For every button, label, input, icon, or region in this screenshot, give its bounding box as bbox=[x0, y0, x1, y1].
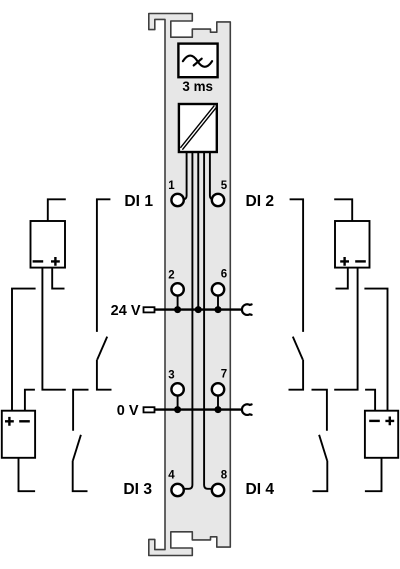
switch S3 lower lead bbox=[289, 360, 304, 390]
filter cross tick bbox=[194, 59, 202, 66]
svg-text:8: 8 bbox=[221, 470, 228, 482]
B4 minus mark bbox=[369, 420, 380, 422]
galvanic isolation box U2 bbox=[179, 104, 217, 152]
switch S2 blade bbox=[73, 435, 81, 461]
B2 minus mark bbox=[19, 420, 30, 422]
switch S4 lower lead bbox=[313, 461, 328, 492]
power supply B3 (right upper) bbox=[335, 221, 370, 268]
svg-text:DI 4: DI 4 bbox=[246, 481, 275, 498]
svg-text:6: 6 bbox=[221, 268, 227, 280]
24V bus socket hook bbox=[242, 304, 252, 315]
isolation diagonal line a bbox=[180, 105, 214, 147]
junction dot bus 24V / terminal 6 bbox=[215, 306, 222, 313]
terminal 3 bbox=[171, 383, 183, 395]
svg-text:DI 3: DI 3 bbox=[123, 481, 152, 498]
terminal 6 bbox=[212, 283, 224, 295]
svg-text:24 V: 24 V bbox=[111, 303, 141, 319]
switch S2 upper lead bbox=[73, 390, 88, 431]
wire to terminal 1 bbox=[182, 149, 187, 199]
0V connector square bbox=[144, 407, 155, 412]
junction dot bus 0V / terminal 3 bbox=[174, 406, 181, 413]
junction dot bus 24V / internal wire bbox=[195, 306, 202, 313]
B1 plus mark bbox=[51, 257, 60, 266]
module body outline (gray strip with DIN-rail tabs) bbox=[149, 14, 231, 556]
wire to terminal 4 bbox=[181, 149, 193, 489]
stub terminal 7 to bus bbox=[217, 395, 219, 410]
svg-text:0 V: 0 V bbox=[117, 403, 139, 419]
B2 second top lead bbox=[25, 390, 35, 411]
B2 bottom lead bbox=[19, 458, 36, 491]
left DI1 lead bracket bbox=[97, 199, 111, 332]
input filter box U1 bbox=[178, 44, 217, 78]
junction dot bus 0V / terminal 7 bbox=[215, 406, 222, 413]
svg-text:7: 7 bbox=[221, 368, 227, 380]
svg-text:1: 1 bbox=[168, 180, 175, 192]
wire to terminal 5 bbox=[210, 149, 215, 199]
B3 long lead down bbox=[334, 268, 357, 390]
B1 long lead down bbox=[42, 268, 65, 390]
right DI2 lead bracket bbox=[290, 199, 304, 332]
svg-text:4: 4 bbox=[168, 470, 175, 482]
svg-text:DI 2: DI 2 bbox=[246, 193, 275, 210]
isolation diagonal line b bbox=[182, 107, 216, 149]
terminal 7 bbox=[212, 383, 224, 395]
terminal 5 bbox=[212, 194, 224, 206]
switch S4 upper lead bbox=[312, 390, 327, 431]
terminal 4 bbox=[171, 484, 183, 496]
24V connector square bbox=[144, 307, 155, 312]
switch S2 lower lead bbox=[73, 461, 88, 492]
switch S1 blade bbox=[97, 337, 107, 360]
filter sine symbol bbox=[183, 56, 212, 67]
B4 plus mark bbox=[385, 417, 394, 426]
power supply B4 (right lower) bbox=[365, 411, 398, 458]
B3 minus mark bbox=[355, 260, 366, 262]
B4 second top lead bbox=[365, 390, 375, 411]
24V bus bbox=[155, 308, 241, 310]
stub terminal 6 to bus bbox=[217, 295, 219, 310]
power supply B2 (left lower) bbox=[2, 411, 35, 458]
left outer bracket wire bbox=[12, 289, 36, 411]
svg-text:5: 5 bbox=[221, 180, 228, 192]
B3 top lead bbox=[334, 199, 352, 221]
terminal 1 bbox=[171, 194, 183, 206]
svg-text:3 ms: 3 ms bbox=[182, 79, 213, 94]
svg-text:DI 1: DI 1 bbox=[124, 193, 153, 210]
power supply B1 (left upper) bbox=[31, 221, 66, 268]
switch S3 blade bbox=[293, 337, 303, 360]
wire to terminal 8 bbox=[204, 149, 216, 489]
svg-text:2: 2 bbox=[168, 269, 174, 281]
switch S1 lower lead bbox=[97, 360, 112, 390]
0V bus bbox=[155, 408, 241, 410]
B1 right stub bbox=[52, 268, 64, 289]
terminal 2 bbox=[171, 283, 183, 295]
terminal 8 bbox=[212, 484, 224, 496]
B3 left stub bbox=[336, 268, 348, 289]
svg-text:3: 3 bbox=[168, 369, 174, 381]
junction dot bus 24V / terminal 2 bbox=[174, 306, 181, 313]
stub terminal 3 to bus bbox=[177, 395, 179, 410]
stub terminal 2 to bus bbox=[177, 295, 179, 310]
B3 plus mark bbox=[340, 257, 349, 266]
right outer bracket wire bbox=[364, 289, 387, 411]
B4 bottom lead bbox=[365, 458, 382, 491]
0V bus socket hook bbox=[242, 404, 252, 415]
B2 plus mark bbox=[5, 417, 14, 426]
B1 minus mark bbox=[33, 260, 44, 262]
wire to 24V bus bbox=[197, 149, 199, 310]
switch S4 blade bbox=[319, 435, 327, 461]
B1 top lead bbox=[48, 199, 66, 221]
